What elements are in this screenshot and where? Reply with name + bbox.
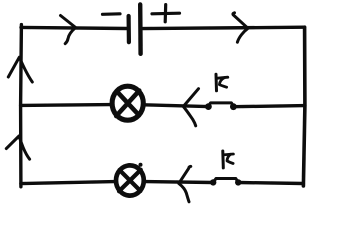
switch S2 right contact dot	[235, 179, 241, 185]
label k switch S1	[216, 74, 228, 91]
wire bottom branch lamp L2 to switch S2	[146, 180, 214, 184]
battery B1 positive plate (long)	[138, 4, 143, 53]
arrow current left-lower (points up)	[6, 136, 29, 159]
wire middle branch switch S1 to right wire	[234, 106, 305, 107]
wire bottom branch left (node to lamp L2)	[21, 182, 115, 184]
label minus sign	[103, 12, 121, 16]
wire right vertical	[303, 27, 305, 186]
lamp L2 cross	[119, 170, 141, 192]
switch S1 right contact dot	[230, 103, 237, 110]
switch S1 left contact dot	[205, 103, 212, 110]
arrow current left-upper (points up)	[8, 57, 32, 82]
wire top-right segment	[141, 27, 305, 28]
switch S2 bridge blade	[213, 179, 238, 183]
wire middle branch left (node to lamp L1)	[21, 103, 112, 107]
wire middle branch lamp L1 to switch S1	[144, 105, 208, 107]
lamp L1 circle	[112, 86, 143, 120]
switch S1 bridge blade	[208, 103, 233, 107]
lamp L2 circle	[116, 163, 144, 196]
wire left vertical	[19, 25, 23, 187]
wire top-left segment	[21, 27, 128, 28]
switch S2 left contact dot	[210, 179, 216, 185]
label plus sign	[152, 5, 180, 22]
arrow current top-left (points right)	[61, 16, 76, 44]
lamp L1 cross	[116, 91, 139, 116]
arrow current middle branch (points left)	[183, 89, 198, 126]
arrow current top-right (points right)	[233, 13, 248, 42]
wire bottom branch switch S2 to right wire	[238, 183, 303, 184]
battery B1 negative plate (short)	[127, 16, 131, 42]
label k switch S2	[223, 151, 234, 168]
arrow current bottom branch (points left)	[179, 166, 191, 201]
